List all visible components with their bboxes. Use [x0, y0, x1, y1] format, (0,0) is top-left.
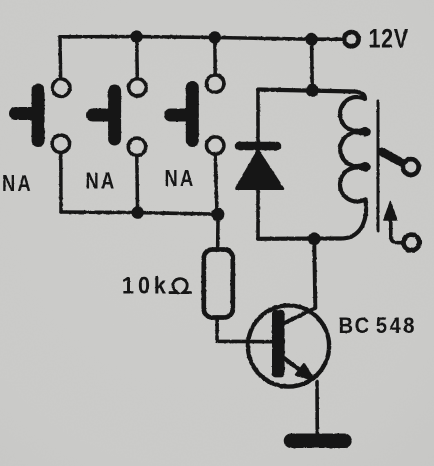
relay core bar [377, 101, 380, 231]
junction dot relay bottom [308, 232, 321, 245]
relay loop: top rail, coil K1, bottom rail [258, 90, 368, 239]
diode D1 anode triangle [236, 151, 283, 189]
pushbutton S3 actuator [171, 88, 193, 141]
junction dot: top rail / 12V feed [305, 33, 318, 46]
relay contact arrow [391, 216, 401, 243]
transistor Q1 emitter arrow [296, 365, 313, 380]
terminal circle: S3 top [207, 75, 224, 92]
wire: 12V junction down to relay [310, 39, 314, 89]
junction dot: bottom rail / S2 [131, 206, 143, 218]
wire: button S3 top lead [213, 38, 217, 74]
relay contact lower terminal [404, 235, 420, 251]
terminal circle: S3 bottom [207, 137, 224, 154]
transistor Q1 emitter [283, 358, 312, 379]
terminal circle: S1 top [53, 79, 70, 96]
wire: bottom rail of buttons [61, 212, 218, 214]
resistor R1 body [204, 250, 233, 318]
omega glyph of 10kOhm [170, 279, 191, 293]
terminal circle: S2 top [129, 79, 146, 96]
pushbutton S2 actuator [93, 91, 115, 139]
coil K1 cusp nub 1 [363, 128, 371, 136]
svg-text:BC548: BC548 [339, 314, 417, 338]
transistor Q1 circle [248, 305, 329, 386]
wire: button S2 top lead [135, 37, 139, 77]
relay contact upper terminal [403, 159, 419, 175]
transistor Q1 collector [284, 239, 316, 324]
junction dot relay top [306, 84, 319, 97]
terminal circle: S2 bottom [128, 138, 145, 155]
terminal circle: S1 bottom [52, 135, 69, 152]
pushbutton S1 actuator [16, 90, 39, 141]
wire: button S1 top lead [58, 37, 62, 77]
coil K1 cusp nub 2 [363, 163, 371, 171]
diode D1 cathode bar [239, 142, 277, 151]
svg-text:NA: NA [86, 168, 117, 194]
wire: resistor top lead [216, 214, 220, 250]
wire: resistor bottom lead to base [217, 317, 272, 342]
wire: diode branch vertical [256, 91, 260, 239]
wire: button S2 bottom lead [135, 157, 139, 213]
junction dot: bottom rail / R1 [211, 208, 224, 221]
svg-text:10k: 10k [122, 271, 170, 299]
svg-text:12V: 12V [369, 24, 409, 54]
junction dot: top rail / S3 [209, 31, 221, 43]
wire: emitter to ground [315, 382, 319, 437]
wire: top +12V rail [60, 37, 343, 40]
ground symbol [291, 433, 345, 448]
svg-text:NA: NA [2, 171, 33, 197]
wire: button S1 bottom lead [59, 154, 63, 212]
relay contact arm [382, 152, 401, 163]
junction dot: top rail / S2 [130, 30, 142, 42]
terminal circle: 12V supply [344, 32, 358, 46]
transistor Q1 base bar [272, 310, 285, 378]
svg-text:NA: NA [165, 166, 196, 192]
wire: button S3 bottom lead [215, 156, 217, 214]
